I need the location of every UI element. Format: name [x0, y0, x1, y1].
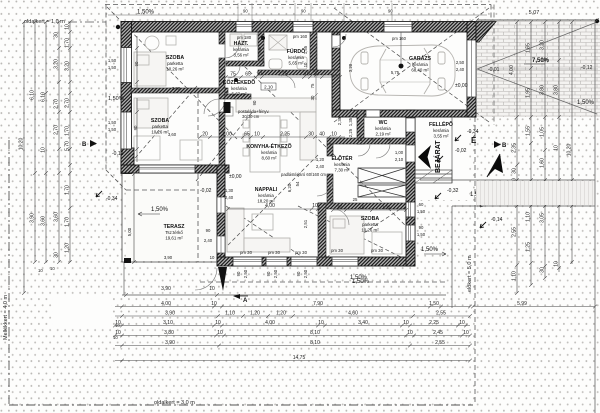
- svg-text:25: 25: [353, 197, 358, 202]
- exterior wall bottom: [217, 257, 415, 266]
- property line left (dash-dot): [8, 140, 10, 405]
- interior wall kozlekedo south: [225, 94, 251, 99]
- svg-text:1,50: 1,50: [429, 301, 439, 307]
- svg-text:3,80: 3,80: [554, 85, 560, 95]
- svg-text:1,05: 1,05: [540, 127, 546, 137]
- window: [121, 48, 132, 83]
- label konyha: [246, 142, 291, 161]
- svg-text:3,90: 3,90: [30, 213, 36, 223]
- svg-text:2,50: 2,50: [303, 269, 308, 278]
- svg-text:pm 160: pm 160: [392, 36, 407, 41]
- svg-text:7,30 m²: 7,30 m²: [335, 168, 350, 173]
- svg-text:30: 30: [310, 95, 315, 100]
- interior wall corridor west upper: [219, 32, 225, 44]
- setback line oldalkert top: [68, 21, 106, 23]
- interior wall wc south: [327, 138, 406, 144]
- door leaf terasz black: [218, 267, 227, 291]
- svg-text:É: É: [471, 136, 477, 145]
- svg-text:10: 10: [554, 145, 560, 151]
- survey dot top-right: [595, 19, 599, 23]
- svg-text:3,55 m²: 3,55 m²: [434, 134, 449, 139]
- label hazt: [233, 40, 249, 58]
- svg-text:1,50: 1,50: [108, 65, 117, 70]
- label 1,50% terasz: [138, 207, 169, 216]
- interior wall corridor west mid: [219, 58, 225, 99]
- svg-text:1,50%: 1,50%: [421, 247, 439, 253]
- svg-text:-0,12: -0,12: [112, 151, 124, 157]
- dim row 5: [115, 344, 472, 348]
- svg-text:90: 90: [243, 9, 248, 14]
- svg-text:1,20: 1,20: [250, 311, 260, 317]
- left dim 5: [68, 20, 72, 264]
- svg-text:1,95: 1,95: [526, 88, 532, 98]
- svg-text:1,55: 1,55: [257, 46, 262, 55]
- black door threshold kozlekedo: [224, 102, 231, 113]
- door entrance: [376, 144, 390, 158]
- svg-text:A: A: [243, 298, 248, 304]
- svg-text:-0,34: -0,34: [467, 129, 479, 135]
- svg-text:parketta: parketta: [152, 124, 168, 129]
- svg-text:2,51: 2,51: [303, 219, 308, 228]
- svg-text:5,99: 5,99: [517, 301, 527, 307]
- small mark: [435, 193, 441, 199]
- terasz dim line 5,00: [132, 172, 136, 264]
- svg-text:75: 75: [230, 72, 236, 78]
- eaves dashed bottom (below house): [200, 281, 446, 283]
- right dim 1: [515, 20, 519, 295]
- fellepo east edge line: [451, 117, 453, 183]
- left dim small labels: [38, 266, 120, 340]
- svg-text:30: 30: [308, 132, 314, 138]
- svg-text:1,55: 1,55: [526, 126, 532, 136]
- right dim 5: [570, 20, 574, 264]
- garage-corridor door gap: [332, 35, 340, 48]
- label eloter: [331, 154, 352, 173]
- right dim 3: [543, 20, 547, 280]
- black dot furdo wall: [261, 36, 265, 40]
- label szoba1: [166, 55, 184, 72]
- interior wall furdo east: [310, 32, 317, 70]
- svg-text:3,20: 3,20: [540, 40, 546, 50]
- svg-text:10: 10: [65, 24, 71, 30]
- svg-text:7,50%: 7,50%: [532, 58, 550, 64]
- washer hazt: [230, 34, 242, 46]
- interior wall eloter west upper: [327, 144, 333, 156]
- svg-text:-0,34: -0,34: [106, 196, 118, 202]
- interior wall hazt bottom: [226, 61, 264, 66]
- svg-text:FELLÉPÕ: FELLÉPÕ: [429, 120, 453, 128]
- exterior wall top: [121, 22, 476, 33]
- svg-text:8,10: 8,10: [310, 330, 320, 336]
- driveway slope diagonal lower: [477, 69, 597, 114]
- nappali west wall openings: [217, 197, 225, 213]
- svg-text:10: 10: [215, 320, 221, 326]
- svg-text:90: 90: [266, 271, 271, 276]
- window: [293, 22, 313, 33]
- svg-text:oldalkert = 3,0 m: oldalkert = 3,0 m: [154, 400, 195, 406]
- interior wall furdo bottom: [258, 70, 340, 75]
- interior wall wc west: [357, 110, 364, 144]
- window: [406, 225, 415, 241]
- bed szoba2: [134, 98, 202, 160]
- svg-text:40: 40: [319, 132, 325, 138]
- svg-text:10: 10: [38, 268, 43, 273]
- wc vent window: [366, 110, 380, 117]
- svg-text:10: 10: [331, 132, 337, 138]
- svg-text:54: 54: [295, 181, 300, 186]
- svg-text:10: 10: [304, 72, 310, 78]
- svg-text:3,90: 3,90: [161, 286, 171, 292]
- svg-text:10: 10: [554, 261, 560, 267]
- svg-text:1,50%: 1,50%: [108, 96, 124, 102]
- svg-text:10,20: 10,20: [19, 138, 25, 151]
- svg-text:10: 10: [41, 147, 47, 153]
- svg-text:-0,32: -0,32: [447, 188, 459, 194]
- left dim 1: [22, 20, 26, 295]
- svg-text:10: 10: [303, 62, 308, 67]
- column dot garage center: [399, 64, 404, 69]
- small mark: [96, 191, 102, 197]
- svg-text:14,75: 14,75: [293, 355, 306, 361]
- plot boundary east: [594, 21, 596, 413]
- svg-text:30: 30: [512, 168, 518, 174]
- entrance door gap: [406, 145, 415, 162]
- svg-text:19,61 m²: 19,61 m²: [165, 236, 183, 241]
- dim row 6: [115, 359, 472, 363]
- svg-text:90: 90: [301, 9, 306, 14]
- svg-text:BEJÁRAT: BEJÁRAT: [433, 140, 442, 173]
- svg-text:90: 90: [206, 228, 211, 233]
- left dim 4: [57, 20, 61, 264]
- interior wall hazt/furdo divider: [258, 32, 264, 66]
- svg-text:3,10: 3,10: [163, 320, 173, 326]
- svg-text:Tsz:térkő: Tsz:térkő: [165, 230, 183, 235]
- svg-text:2,35: 2,35: [337, 116, 342, 125]
- dim row 2: [115, 314, 472, 318]
- svg-text:KONYHA-ÉTKEZÕ: KONYHA-ÉTKEZÕ: [246, 142, 291, 150]
- eaves solid line above top wall: [108, 14, 487, 16]
- svg-text:kerámia: kerámia: [233, 47, 249, 52]
- walkway edge bottom: [452, 205, 595, 207]
- svg-text:parketta: parketta: [362, 222, 378, 227]
- svg-text:10: 10: [217, 330, 223, 336]
- driveway mid line: [477, 68, 598, 70]
- window: [139, 165, 195, 173]
- label fellepo: [429, 120, 453, 139]
- svg-text:10,26 m²: 10,26 m²: [166, 67, 184, 72]
- window: [332, 257, 358, 266]
- svg-text:1,65: 1,65: [526, 43, 532, 53]
- svg-text:1,70: 1,70: [65, 38, 71, 48]
- right dim 2: [529, 20, 533, 287]
- svg-text:2,10: 2,10: [395, 157, 404, 162]
- svg-text:2,50: 2,50: [243, 269, 248, 278]
- svg-text:2,50: 2,50: [273, 269, 278, 278]
- window: [121, 112, 132, 149]
- svg-text:65: 65: [244, 132, 250, 138]
- svg-text:2,25: 2,25: [429, 320, 439, 326]
- svg-text:5,75: 5,75: [391, 70, 400, 75]
- svg-text:2,19 m²: 2,19 m²: [376, 132, 391, 137]
- small mark: [437, 156, 443, 162]
- svg-text:75: 75: [370, 137, 375, 142]
- dim row 3: [113, 324, 470, 328]
- dim row furdo: [224, 75, 342, 79]
- svg-text:10: 10: [403, 320, 409, 326]
- svg-text:pm 30: pm 30: [371, 248, 384, 253]
- eaves outline dashed top: [105, 4, 491, 6]
- svg-text:3,05: 3,05: [540, 213, 546, 223]
- svg-text:10: 10: [209, 286, 215, 292]
- svg-text:kerámia: kerámia: [288, 55, 304, 60]
- svg-text:10: 10: [318, 320, 324, 326]
- terasz corner black mark: [124, 258, 131, 263]
- label terasz: [164, 224, 186, 241]
- roof front hip 1: [298, 206, 413, 263]
- svg-text:pm 30: pm 30: [295, 250, 308, 255]
- svg-text:90: 90: [296, 271, 301, 276]
- svg-text:kerámia: kerámia: [375, 126, 391, 131]
- svg-text:Mellékkert = 4,0 m: Mellékkert = 4,0 m: [3, 294, 9, 340]
- svg-text:3,80: 3,80: [164, 330, 174, 336]
- svg-text:pm 160: pm 160: [293, 34, 308, 39]
- svg-text:3,90: 3,90: [165, 311, 175, 317]
- svg-text:pm 180: pm 180: [237, 35, 252, 40]
- terasz roof dashed corner: [106, 170, 126, 190]
- exterior wall szoba2 bottom: [121, 165, 229, 173]
- svg-text:2,35: 2,35: [512, 143, 518, 153]
- exterior wall right: [406, 110, 415, 266]
- svg-text:30/30 cm: 30/30 cm: [242, 114, 260, 119]
- svg-text:4,60: 4,60: [348, 311, 358, 317]
- window: [233, 257, 262, 266]
- garage wall bottom: [332, 110, 476, 117]
- roof hip NW: [107, 7, 237, 139]
- svg-text:1,55: 1,55: [303, 45, 308, 54]
- garage side door: [406, 118, 415, 132]
- svg-text:10,26 m²: 10,26 m²: [361, 228, 379, 233]
- svg-text:65: 65: [387, 137, 392, 142]
- svg-text:10: 10: [50, 266, 55, 271]
- walkway paving texture: [476, 181, 595, 205]
- svg-text:pm 30: pm 30: [268, 250, 281, 255]
- svg-text:kerámia: kerámia: [258, 193, 274, 198]
- car in garage: [350, 45, 455, 96]
- survey dot garage: [342, 36, 346, 40]
- svg-text:3,60: 3,60: [168, 132, 177, 137]
- svg-text:10: 10: [113, 335, 118, 340]
- small mark: [480, 222, 486, 228]
- roof hip garage 1: [334, 8, 489, 122]
- window: [266, 257, 287, 266]
- svg-text:90: 90: [338, 205, 343, 210]
- door szoba2: [204, 99, 219, 114]
- svg-text:előkert = 5,0 m: előkert = 5,0 m: [467, 255, 473, 292]
- mailbox square: [225, 107, 233, 116]
- label furdo: [287, 48, 305, 66]
- window dim line szoba2: [135, 98, 139, 162]
- svg-text:68,40 m²: 68,40 m²: [411, 68, 429, 73]
- svg-text:1,50: 1,50: [108, 58, 117, 63]
- dot kozlekedo: [234, 78, 238, 82]
- interior wall szoba divider: [131, 88, 228, 93]
- dashed line right of garage: [493, 5, 495, 126]
- svg-text:3,40: 3,40: [358, 320, 368, 326]
- svg-text:30: 30: [54, 252, 60, 258]
- dim line nappali: [226, 207, 320, 211]
- svg-text:1,50%: 1,50%: [577, 100, 595, 106]
- property line right / elokert (dashed): [474, 117, 476, 405]
- label szoba2: [151, 118, 169, 135]
- svg-text:2,10: 2,10: [264, 85, 273, 90]
- svg-text:kerámia: kerámia: [261, 150, 277, 155]
- garage door opening: [467, 40, 476, 97]
- svg-text:-0,14: -0,14: [491, 217, 503, 223]
- dim 5,07 top: [475, 18, 599, 22]
- svg-text:1,50%: 1,50%: [352, 279, 370, 285]
- svg-text:2,70: 2,70: [65, 98, 71, 108]
- label garazs: [409, 55, 431, 73]
- svg-text:6,10: 6,10: [30, 90, 36, 100]
- dim row 1: [115, 305, 472, 309]
- svg-text:ELÕTÉR: ELÕTÉR: [331, 154, 352, 162]
- svg-text:1,60: 1,60: [540, 158, 546, 168]
- window: [236, 22, 252, 33]
- svg-text:pm 30: pm 30: [240, 250, 253, 255]
- eaves outline dashed left: [105, 5, 107, 171]
- svg-text:pm 30: pm 30: [331, 248, 344, 253]
- svg-text:3,80: 3,80: [540, 85, 546, 95]
- svg-text:1,35: 1,35: [348, 117, 353, 126]
- svg-text:90: 90: [419, 225, 424, 230]
- svg-text:10,20: 10,20: [567, 144, 573, 157]
- right dim 4: [557, 20, 561, 272]
- small mark: [455, 135, 461, 141]
- svg-text:1,50: 1,50: [108, 120, 117, 125]
- driveway top edge line: [477, 19, 598, 21]
- roof hip szoba2: [130, 86, 197, 164]
- svg-text:-0,02: -0,02: [455, 148, 467, 154]
- garage wall right: [467, 22, 476, 118]
- bed szoba3: [330, 216, 402, 254]
- roof valley center: [240, 62, 413, 233]
- svg-text:3,90: 3,90: [164, 255, 173, 260]
- svg-text:10,26 m²: 10,26 m²: [151, 130, 169, 135]
- svg-text:kerámia: kerámia: [334, 162, 350, 167]
- svg-text:2,70: 2,70: [54, 125, 60, 135]
- door label 2,10: [261, 83, 276, 90]
- svg-text:1,35: 1,35: [382, 205, 391, 210]
- svg-text:1,70: 1,70: [65, 126, 71, 136]
- garage door arc: [333, 34, 346, 47]
- door eloter-konyha: [317, 180, 333, 196]
- svg-text:3,20: 3,20: [54, 59, 60, 69]
- svg-text:2,55: 2,55: [512, 227, 518, 237]
- svg-text:parketta: parketta: [167, 61, 183, 66]
- label wc: [375, 120, 391, 137]
- roof hip garage 2: [334, 8, 489, 122]
- svg-text:1,10: 1,10: [225, 311, 235, 317]
- exterior wall left: [121, 22, 132, 174]
- svg-text:3,60: 3,60: [41, 216, 47, 226]
- svg-text:10: 10: [256, 72, 262, 78]
- svg-text:1,10: 1,10: [512, 271, 518, 281]
- svg-text:8,10: 8,10: [310, 340, 320, 346]
- door szoba1: [225, 44, 239, 58]
- wing wall at driveway: [476, 22, 496, 43]
- svg-text:1,00: 1,00: [222, 132, 232, 138]
- svg-text:1,50%: 1,50%: [151, 207, 169, 213]
- svg-text:10: 10: [211, 301, 217, 307]
- svg-text:3,80: 3,80: [172, 86, 181, 91]
- driveway paving (brick texture): [477, 20, 600, 117]
- corner pier left bottom: [121, 148, 134, 173]
- svg-text:15: 15: [358, 137, 363, 142]
- label kozlekedo: [223, 79, 256, 97]
- svg-text:3,60: 3,60: [54, 212, 60, 222]
- svg-text:1,50: 1,50: [417, 232, 426, 237]
- survey dot top-left: [116, 25, 120, 29]
- svg-text:6,10: 6,10: [41, 92, 47, 102]
- left dim 2: [33, 20, 37, 264]
- svg-text:2,55: 2,55: [436, 311, 446, 317]
- terasz edge bottom: [122, 261, 217, 263]
- svg-text:5,67 m²: 5,67 m²: [232, 92, 247, 97]
- svg-text:2,55: 2,55: [435, 340, 445, 346]
- svg-text:4,00: 4,00: [265, 320, 275, 326]
- north arrow: [487, 154, 503, 177]
- svg-text:75: 75: [310, 83, 315, 88]
- svg-text:3,56 m²: 3,56 m²: [234, 53, 249, 58]
- driveway slope diagonal upper: [477, 22, 597, 69]
- svg-text:1,50: 1,50: [108, 127, 117, 132]
- svg-text:2,70: 2,70: [54, 99, 60, 109]
- svg-text:5,07: 5,07: [529, 10, 540, 16]
- svg-text:10: 10: [360, 205, 365, 210]
- svg-text:90: 90: [236, 271, 241, 276]
- svg-text:kerámia: kerámia: [433, 128, 449, 133]
- svg-text:10: 10: [312, 203, 318, 209]
- bed szoba1: [134, 36, 176, 86]
- svg-text:60: 60: [419, 202, 424, 207]
- roof valley nappali: [228, 155, 318, 245]
- svg-text:1,20: 1,20: [276, 311, 286, 317]
- white box: [53, 298, 111, 325]
- window dim line szoba1: [135, 36, 139, 91]
- dim row konyha: [198, 135, 345, 139]
- svg-text:1,25: 1,25: [526, 242, 532, 252]
- svg-text:1,70: 1,70: [65, 185, 71, 195]
- svg-text:5,00: 5,00: [127, 227, 132, 236]
- svg-text:2,40: 2,40: [456, 67, 465, 72]
- interior wall szoba3 west: [318, 203, 326, 257]
- svg-text:10: 10: [407, 330, 413, 336]
- svg-text:2,25: 2,25: [280, 132, 290, 138]
- window: [384, 22, 412, 33]
- door hazt: [228, 66, 240, 78]
- svg-text:B: B: [82, 142, 87, 148]
- small arrow under ground line: [233, 294, 240, 299]
- svg-text:5,70: 5,70: [65, 141, 71, 151]
- svg-text:10: 10: [254, 132, 260, 138]
- svg-text:1,00: 1,00: [395, 150, 404, 155]
- garage wall left: [332, 32, 340, 117]
- svg-text:kerámia: kerámia: [412, 62, 428, 67]
- kitchen counter: [236, 98, 316, 172]
- label 1,50% entrance: [421, 247, 446, 256]
- left dim 3: [44, 20, 48, 264]
- svg-text:6,20: 6,20: [287, 183, 292, 192]
